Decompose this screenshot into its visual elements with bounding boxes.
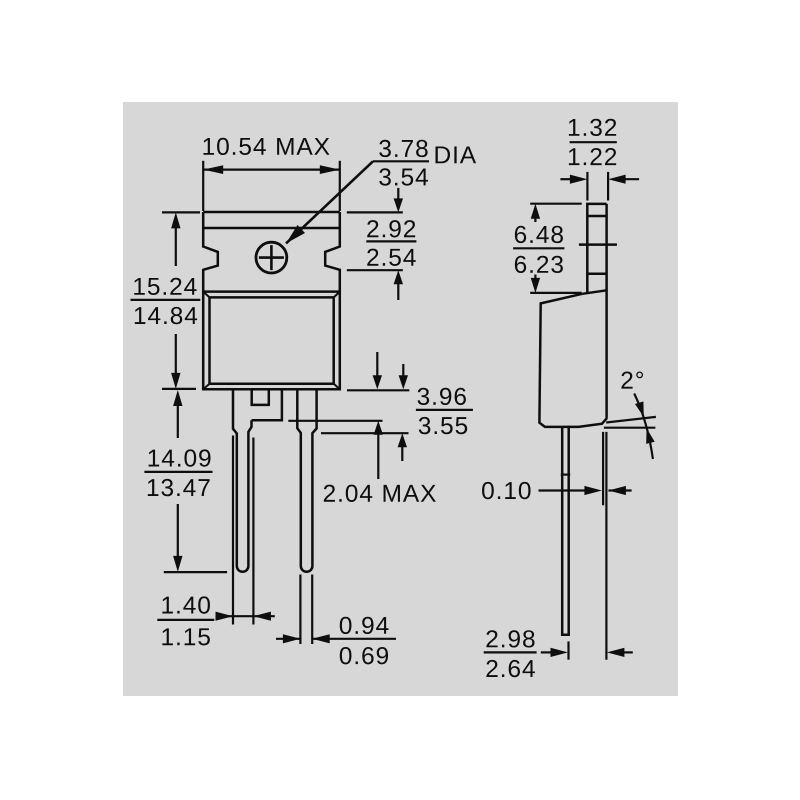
side view: horizontal reference line: [604, 427, 656, 429]
front view: left lead (pin 1): [233, 389, 237, 566]
front view: center leadframe shelf: [252, 389, 282, 420]
front view: right lead (pin 2): [297, 389, 301, 566]
dimension 2.04 MAX (stub length): [376, 352, 378, 376]
dimension 15.24/14.84 (tab+body height): [162, 211, 200, 213]
front view: body bevel corner diagonals: [203, 292, 209, 298]
dimension 6.48/6.23 (tab height): [530, 203, 582, 205]
grey drawing background: [123, 102, 678, 696]
dimension 14.09/13.47 (lead length): [173, 390, 182, 406]
front view: mounting hole with center cross: [256, 242, 287, 273]
side view: 0.10 offset line: [602, 432, 604, 505]
front view: molded body outer outline: [203, 292, 340, 390]
side view: body edge extension line: [605, 432, 607, 660]
dimension 3.78/3.54 DIA (hole diameter) with leader to hole: [379, 140, 427, 157]
front view: left lead width extension lines: [232, 436, 234, 625]
side view: tab right edge / body right edge: [605, 204, 608, 418]
front view: cut-off center lead stub: [252, 389, 269, 405]
dimension 2.98/2.64 (lead to body edge): [567, 641, 569, 659]
dimension 1.32/1.22 (tab thickness): [586, 172, 588, 201]
front view: mounting tab outline with side notches: [203, 211, 340, 214]
front view: right lead width extension lines: [299, 575, 301, 645]
side view: body outline: [539, 294, 607, 427]
side view: lead: [562, 426, 569, 635]
side view: lead tick mark: [561, 474, 570, 476]
dimension 0.10 (lead offset): [539, 489, 589, 491]
side view: body top slant under tab: [582, 290, 606, 294]
front view: molded body inner bevel outline: [210, 297, 334, 383]
side view: tab profile: [587, 204, 606, 293]
dimension 0.94/0.69 (lead width): [276, 638, 300, 640]
front view: tab upper chamfer line: [203, 227, 340, 230]
dimension 10.54 MAX (tab width): [202, 161, 204, 211]
side view: tab section lines: [587, 215, 606, 218]
dimension 1.40/1.15 (lead width at shoulder): [162, 596, 210, 613]
side view: 2 degree slant line: [606, 417, 656, 423]
dimension 2.92/2.54 (tab top to notch): [347, 211, 403, 213]
dimension 3.96/3.55 (shoulder length): [347, 389, 409, 391]
angle dimension 2 deg arc with arrows: [634, 394, 653, 460]
